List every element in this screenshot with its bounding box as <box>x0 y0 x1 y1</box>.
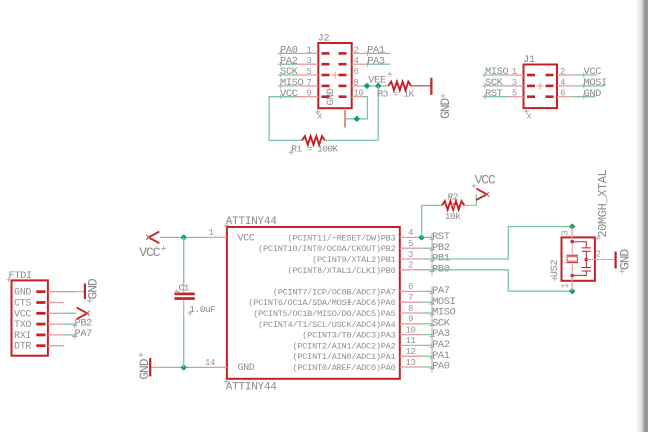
svg-text:1: 1 <box>512 67 517 77</box>
svg-text:1: 1 <box>560 283 570 288</box>
svg-text:12: 12 <box>405 347 415 357</box>
svg-text:10k: 10k <box>445 211 461 222</box>
J2 pin dashes left <box>322 53 330 96</box>
wire net PA3 at IC <box>421 334 431 336</box>
svg-text:GND: GND <box>238 363 255 374</box>
junction GND/C1 <box>181 365 186 370</box>
FTDI pin stub RXI <box>48 334 64 336</box>
wire net PA2 at J2 <box>281 63 298 65</box>
FTDI pin dash GND <box>36 290 45 293</box>
J2 pin 7 stub <box>298 85 319 87</box>
svg-text:GND: GND <box>438 98 453 119</box>
svg-text:PA7: PA7 <box>75 328 93 340</box>
svg-text:R3 = 1K: R3 = 1K <box>378 89 415 100</box>
svg-text:CTS: CTS <box>14 299 31 310</box>
svg-text:7: 7 <box>408 293 413 303</box>
wire net MISO at J1 <box>485 74 509 76</box>
J2 pin dashes right <box>339 53 347 96</box>
J1 origin cross <box>537 83 544 90</box>
wire net MISO at IC <box>421 312 431 314</box>
connector FTDI <box>12 280 48 355</box>
svg-text:1: 1 <box>208 228 213 238</box>
wire net PA0 at IC <box>421 366 431 368</box>
svg-text:(PCINT3/T0/ADC3)PA3: (PCINT3/T0/ADC3)PA3 <box>302 331 395 341</box>
svg-text:4: 4 <box>560 78 565 88</box>
IC pin 14 stub <box>205 366 227 368</box>
wire gnd stub <box>150 366 161 368</box>
svg-text:VEE: VEE <box>368 75 386 87</box>
wire net MOSI at IC <box>421 301 431 303</box>
wire net VEE <box>362 85 388 87</box>
J2 pin 4 stub <box>352 63 368 65</box>
wire R2 to VCC arrow <box>475 194 477 205</box>
wire C1 down to GND row <box>183 314 185 368</box>
wire pin10 to pinX <box>345 97 367 119</box>
FTDI pin dash DTR <box>36 344 45 347</box>
wire net PA3 at J2 <box>368 63 391 65</box>
svg-text:FTDI: FTDI <box>9 270 33 282</box>
J2 pin 3 stub <box>298 63 319 65</box>
ground symbol (FTDI) <box>84 284 86 299</box>
capacitor C1 stub bottom <box>183 300 185 314</box>
wire net PA0 at J2 <box>281 52 298 54</box>
svg-text:(PCINT6/OC1A/SDA/MOSI/ADC6)PA6: (PCINT6/OC1A/SDA/MOSI/ADC6)PA6 <box>248 298 395 308</box>
wire R1 to VEE leg <box>325 139 378 141</box>
svg-text:GND: GND <box>617 249 632 270</box>
wire net VCC at J2 <box>281 96 298 98</box>
wire VCC down to C1 <box>183 237 185 283</box>
wire R3 to GND <box>411 85 431 87</box>
svg-text:(PCINT9/XTAL2)PB1: (PCINT9/XTAL2)PB1 <box>312 255 396 265</box>
svg-text:VCC: VCC <box>475 173 496 188</box>
crystal node top <box>570 240 574 244</box>
svg-text:1: 1 <box>306 45 311 55</box>
wire net SCK at J2 <box>281 74 298 76</box>
IC pin 3 stub <box>400 258 422 260</box>
IC pin 4 stub <box>400 236 422 238</box>
resistor R3 <box>388 82 411 91</box>
J1 pin 5 stub <box>508 96 524 98</box>
wire net RST at J1 <box>485 96 509 98</box>
svg-text:(PCINT1/AIN0/ADC1)PA1: (PCINT1/AIN0/ADC1)PA1 <box>292 352 395 362</box>
svg-text:(PCINT10/INT0/OC0A/CKOUT)PB2: (PCINT10/INT0/OC0A/CKOUT)PB2 <box>258 244 395 254</box>
wire net MISO at J2 <box>281 85 298 87</box>
svg-text:(PCINT8/XTAL1/CLKI)PB0: (PCINT8/XTAL1/CLKI)PB0 <box>288 266 396 276</box>
wire net SCK at IC <box>421 323 431 325</box>
FTDI pin stub CTS <box>48 302 64 304</box>
FTDI pin stub VCC <box>48 312 64 314</box>
svg-text:VCC: VCC <box>280 88 298 100</box>
wire VEE down to R1 <box>377 86 379 140</box>
wire FTDI TXO <box>64 323 74 325</box>
crystal node pin2 <box>585 258 589 262</box>
IC pin 9 stub <box>400 323 422 325</box>
crystal US2 body <box>562 237 595 280</box>
R2 right lead <box>464 204 476 206</box>
J2 pin 8 stub <box>352 85 362 87</box>
svg-text:C1: C1 <box>179 282 190 293</box>
junction VCC/C1 <box>181 235 186 240</box>
svg-text:R2: R2 <box>448 191 459 202</box>
IC origin cross <box>346 299 352 305</box>
IC pin 12 stub <box>400 355 422 357</box>
FTDI pin dash RXI <box>36 333 45 336</box>
FTDI pin dash TXO <box>36 323 45 326</box>
svg-text:ATTINY44: ATTINY44 <box>226 216 277 228</box>
svg-text:3: 3 <box>408 250 413 260</box>
svg-text:ATTINY44: ATTINY44 <box>226 382 277 394</box>
svg-text:8: 8 <box>408 304 413 314</box>
svg-text:2: 2 <box>560 67 565 77</box>
svg-text:7: 7 <box>306 78 311 88</box>
IC pin 10 stub <box>400 334 422 336</box>
wire PB0 to crystal pin1 <box>421 270 572 291</box>
svg-text:2: 2 <box>354 45 359 55</box>
svg-text:US2: US2 <box>549 260 561 278</box>
svg-text:PA0: PA0 <box>432 361 450 373</box>
wire FTDI GND <box>64 291 75 293</box>
wire pin14 to GND <box>161 366 205 368</box>
J2 pin 9 stub <box>298 96 319 98</box>
wire net MOSI at J1 <box>573 85 606 87</box>
J1 pin dashes right <box>546 75 554 97</box>
IC pin 11 stub <box>400 344 422 346</box>
junction VEE b <box>376 84 381 89</box>
IC pin 5 stub <box>400 247 422 249</box>
wire FTDI RXI <box>64 334 74 336</box>
resistor R1 <box>302 136 325 145</box>
svg-text:(PCINT7/ICP/OC0B/ADC7)PA7: (PCINT7/ICP/OC0B/ADC7)PA7 <box>273 287 396 297</box>
junction crystal pin1 <box>570 289 575 294</box>
gnd lead <box>75 291 85 293</box>
svg-text:RST: RST <box>485 88 503 100</box>
junction RST <box>419 235 424 240</box>
svg-text:VCC: VCC <box>14 309 31 320</box>
connector J2 <box>318 43 351 108</box>
J2 pin X stub <box>344 110 346 128</box>
svg-text:(PCINT5/OC1B/MISO/DO/ADC5)PA5: (PCINT5/OC1B/MISO/DO/ADC5)PA5 <box>253 309 395 319</box>
svg-text:6: 6 <box>354 67 359 77</box>
FTDI pin dash CTS <box>36 301 45 304</box>
J1 pin 1 stub <box>508 74 524 76</box>
svg-text:DTR: DTR <box>14 342 31 353</box>
svg-text:10: 10 <box>405 325 415 335</box>
ground symbol (crystal) <box>614 252 616 269</box>
svg-text:J2: J2 <box>318 33 330 45</box>
FTDI pin dash VCC <box>36 312 45 315</box>
ground symbol at R3 <box>430 78 432 95</box>
J1 pin 3 stub <box>508 85 524 87</box>
svg-text:PA3: PA3 <box>367 55 385 67</box>
svg-text:3: 3 <box>560 231 570 236</box>
svg-text:J1: J1 <box>523 54 535 66</box>
crystal pin2 lead <box>586 259 614 261</box>
J1 pin 4 stub <box>557 85 573 87</box>
svg-text:8: 8 <box>354 78 359 88</box>
wire net PA1 at J2 <box>368 52 391 54</box>
svg-text:1.0uF: 1.0uF <box>189 304 216 315</box>
svg-text:6: 6 <box>560 89 565 99</box>
J1 pin dashes left <box>527 75 535 97</box>
supply VCC arrow (pin1) <box>149 232 160 244</box>
svg-text:x: x <box>526 112 531 122</box>
svg-text:11: 11 <box>405 336 415 346</box>
wire net GND at J1 <box>573 96 596 98</box>
J2 pin 1 stub <box>298 52 319 54</box>
IC pin 13 stub <box>400 366 422 368</box>
wire VCC to pin1 <box>160 236 205 238</box>
IC pin 8 stub <box>400 312 422 314</box>
wire net PA7 at IC <box>421 290 431 292</box>
svg-text:4: 4 <box>408 228 413 238</box>
wire net PA2 at IC <box>421 344 431 346</box>
crystal node bottom <box>570 274 574 278</box>
crystal pin3 stub <box>571 227 573 242</box>
junction VEE a <box>365 84 370 89</box>
wire net SCK at J1 <box>485 85 509 87</box>
svg-text:VCC: VCC <box>139 245 160 260</box>
wire net PB2 at IC <box>421 247 431 249</box>
J2 pin 10 stub <box>352 96 362 98</box>
supply VCC arrow (R2) <box>476 189 487 201</box>
crystal load caps <box>572 242 591 260</box>
IC pin 1 stub <box>205 236 227 238</box>
svg-text:GND: GND <box>14 288 31 299</box>
wire PB1 to crystal pin3 <box>421 227 572 259</box>
svg-text:TXO: TXO <box>14 320 31 331</box>
J1 pin 2 stub <box>557 74 573 76</box>
wire net RST at IC <box>421 236 431 238</box>
ground symbol (pin14) <box>149 358 151 376</box>
J2 pin 2 stub <box>352 52 368 54</box>
junction crystal pin3 <box>570 224 575 229</box>
wire VCC row to R1 loop <box>269 97 302 141</box>
IC pin 6 stub <box>400 290 422 292</box>
svg-text:R1 = 100K: R1 = 100K <box>291 143 338 154</box>
svg-text:5: 5 <box>408 239 413 249</box>
op-amp? no: IC U1 ATTINY44 <box>227 227 400 379</box>
svg-text:2: 2 <box>408 261 413 271</box>
capacitor C1 <box>174 293 194 296</box>
svg-text:VCC: VCC <box>238 233 255 244</box>
svg-text:14: 14 <box>205 358 215 368</box>
FTDI pin stub DTR <box>48 345 64 347</box>
IC pin 7 stub <box>400 301 422 303</box>
svg-text:GND: GND <box>584 88 602 100</box>
svg-text:GND: GND <box>86 278 101 299</box>
J1 pin 6 stub <box>557 96 573 98</box>
svg-text:9: 9 <box>408 315 413 325</box>
wire net VCC at J1 <box>573 74 597 76</box>
FTDI pin stub TXO <box>48 323 64 325</box>
svg-text:GND: GND <box>137 358 152 379</box>
svg-text:4: 4 <box>354 56 359 66</box>
svg-text:(PCINT4/T1/SCL/USCK/ADC4)PA4: (PCINT4/T1/SCL/USCK/ADC4)PA4 <box>258 320 395 330</box>
wire FTDI VCC <box>64 312 76 314</box>
svg-text:RXI: RXI <box>14 331 31 342</box>
resistor R2 <box>442 201 464 210</box>
wire RST up to R2 <box>422 205 442 237</box>
junction pin X net <box>354 116 359 121</box>
svg-text:5: 5 <box>512 89 517 99</box>
FTDI pin stub GND <box>48 291 64 293</box>
crystal element <box>571 242 573 256</box>
svg-text:13: 13 <box>405 358 415 368</box>
supply VCC arrow (FTDI) <box>77 308 88 320</box>
svg-text:5: 5 <box>306 67 311 77</box>
capacitor C1 stub top <box>183 283 185 293</box>
svg-text:2: 2 <box>596 249 601 259</box>
svg-text:9: 9 <box>306 89 311 99</box>
connector J1 <box>524 65 558 109</box>
svg-text:3: 3 <box>512 78 517 88</box>
J2 origin cross <box>332 72 339 79</box>
wire net PA1 at IC <box>421 355 431 357</box>
svg-text:GND: GND <box>326 88 337 105</box>
svg-text:20MGH_XTAL: 20MGH_XTAL <box>596 169 610 237</box>
svg-text:(PCINT0/AREF/ADC0)PA0: (PCINT0/AREF/ADC0)PA0 <box>292 363 395 373</box>
svg-text:(PCINT11/~RESET/DW)PB3: (PCINT11/~RESET/DW)PB3 <box>288 233 396 243</box>
IC pin 2 stub <box>400 269 422 271</box>
crystal pin1 stub <box>571 275 573 291</box>
svg-text:3: 3 <box>306 56 311 66</box>
svg-text:6: 6 <box>408 282 413 292</box>
svg-text:(PCINT2/AIN1/ADC2)PA2: (PCINT2/AIN1/ADC2)PA2 <box>292 341 395 351</box>
J2 pin 5 stub <box>298 74 319 76</box>
